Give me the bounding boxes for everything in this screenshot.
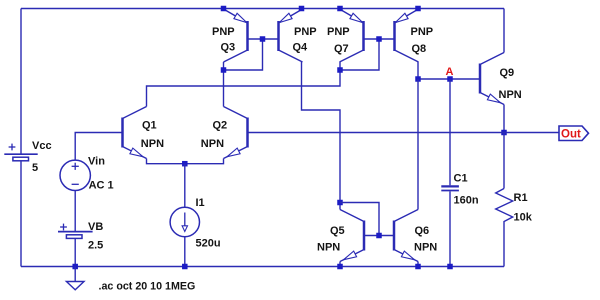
junction: Q5 emitter on rail: [337, 264, 343, 270]
junction: Q5/Q6 base: [376, 233, 382, 239]
junction: Q7 emitter on rail: [337, 6, 343, 12]
wire: Q2 emitter to tail node: [185, 159, 224, 164]
transistor Q7: [362, 21, 365, 51]
svg-text:NPN: NPN: [499, 89, 522, 101]
wire: Q5 emitter to rail: [339, 262, 341, 267]
transistor Q1: [121, 118, 124, 148]
wire: Vin to VB: [74, 191, 76, 232]
transistor Q8: [393, 21, 396, 51]
svg-text:PNP: PNP: [327, 26, 350, 38]
wire: node A to C1: [449, 79, 451, 185]
transistor Q9: [479, 64, 482, 94]
transistor Q4: [277, 21, 280, 51]
wire: Q4 collector to Q5 collector: [302, 62, 341, 203]
node: tail junction: [182, 161, 188, 167]
node: Q3 collector-base junction: [221, 67, 227, 73]
svg-text:2.5: 2.5: [88, 240, 103, 252]
svg-text:NPN: NPN: [201, 138, 224, 150]
svg-text:Q7: Q7: [334, 43, 349, 55]
junction: Q3/Q4 base: [260, 36, 266, 42]
wire: Q5-Q6 base wire: [364, 235, 394, 237]
voltage source Vin: [60, 160, 90, 190]
wire: Q7 collector stub: [339, 62, 341, 70]
wire: Q5 collector stub: [339, 203, 341, 210]
svg-text:Q3: Q3: [221, 42, 236, 54]
wire: VB to ground rail: [74, 238, 76, 266]
svg-text:A: A: [446, 66, 454, 78]
wire: left Vcc riser (top): [20, 9, 22, 155]
svg-text:Q6: Q6: [415, 225, 430, 237]
node: Q7 collector-base junction: [337, 67, 343, 73]
transistor Q3: [246, 21, 249, 51]
junction: Q3 emitter on rail: [221, 6, 227, 12]
current source I1: [170, 207, 199, 236]
wire: R1 bottom to rail: [503, 225, 505, 267]
svg-text:10k: 10k: [514, 211, 533, 223]
wire: Q1 emitter to tail node: [147, 159, 185, 164]
svg-text:Q9: Q9: [500, 67, 515, 79]
wire: Q5-Q6 base tie: [340, 203, 379, 236]
svg-text:160n: 160n: [454, 194, 479, 206]
wire: Q9 collector to rail: [503, 9, 505, 53]
node: output junction: [501, 130, 507, 136]
wire: feedback Q2 base to Out: [248, 132, 560, 134]
junction: Q6 emitter on rail: [415, 264, 421, 270]
svg-text:.ac oct 20 10 1MEG: .ac oct 20 10 1MEG: [99, 281, 196, 293]
junction: Q7/Q8 base: [376, 36, 382, 42]
wire: Q9 emitter to out node: [503, 105, 505, 133]
svg-text:Q2: Q2: [213, 120, 228, 132]
svg-text:C1: C1: [454, 172, 468, 184]
wire: Q6 emitter to rail: [417, 262, 419, 267]
svg-text:Q8: Q8: [412, 43, 427, 55]
capacitor C1: [441, 185, 459, 187]
junction: VB/ground on rail: [72, 264, 78, 270]
wire: Q3-Q4 base wire: [248, 38, 279, 40]
junction: I1 on rail: [182, 264, 188, 270]
wire: Q3 collector stub: [223, 62, 225, 70]
svg-text:Q4: Q4: [293, 42, 309, 54]
junction: Q8 emitter on rail: [415, 6, 421, 12]
wire: bottom ground rail: [21, 266, 504, 268]
wire: tail to I1: [184, 164, 186, 208]
node A junction: [447, 76, 453, 82]
junction: C1 on rail: [447, 264, 453, 270]
svg-text:NPN: NPN: [317, 242, 340, 254]
svg-text:PNP: PNP: [411, 26, 434, 38]
svg-text:Vin: Vin: [88, 156, 105, 168]
junction: Q8/Q6 column at A row: [415, 76, 421, 82]
wire: node A row: [418, 78, 480, 80]
junction: Q4 emitter on rail: [299, 6, 305, 12]
voltage source VB: [58, 231, 93, 233]
wire: C1 to ground rail: [449, 192, 451, 267]
transistor Q6: [393, 221, 396, 251]
transistor Q5: [363, 221, 366, 251]
svg-text:5: 5: [32, 162, 38, 174]
wire: I1 to ground rail: [184, 237, 186, 267]
svg-text:R1: R1: [514, 192, 528, 204]
svg-text:I1: I1: [196, 197, 205, 209]
port Out: [559, 126, 589, 141]
wire: R1 top: [503, 133, 505, 189]
wire: Q2 collector to Q3 collector: [223, 70, 225, 107]
svg-text:AC 1: AC 1: [89, 179, 114, 191]
svg-text:Q5: Q5: [330, 225, 345, 237]
wire: Q7-Q8 base tie: [340, 39, 379, 70]
voltage source Vcc: [4, 153, 37, 155]
wire: Q6 collector riser: [417, 79, 419, 210]
ground: [74, 267, 76, 282]
svg-text:VB: VB: [88, 221, 103, 233]
svg-text:NPN: NPN: [414, 242, 437, 254]
wire: Q1 collector to Q7 mirror: [147, 70, 341, 107]
wire: Q3-Q4 base tie: [224, 39, 263, 70]
svg-text:520u: 520u: [196, 238, 221, 250]
svg-text:Out: Out: [561, 129, 581, 141]
wire: Q7-Q8 base wire: [364, 38, 395, 40]
svg-text:PNP: PNP: [212, 26, 235, 38]
transistor Q2: [246, 118, 249, 148]
wire: Q8 collector to node A column: [417, 62, 419, 79]
svg-text:NPN: NPN: [141, 138, 164, 150]
node: Q5 collector junction: [337, 200, 343, 206]
svg-text:PNP: PNP: [294, 26, 317, 38]
wire: Vin top to Q1 base: [75, 133, 122, 161]
wire: left Vcc riser (bottom): [20, 161, 22, 267]
svg-text:Q1: Q1: [142, 120, 157, 132]
resistor R1: [496, 189, 513, 226]
wire: top Vcc rail: [21, 8, 504, 10]
svg-text:Vcc: Vcc: [32, 140, 52, 152]
